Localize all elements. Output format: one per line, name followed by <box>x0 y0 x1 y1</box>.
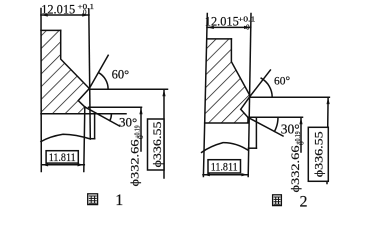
left edge fig1 <box>40 9 42 172</box>
30 deg arc fig1 <box>110 114 112 120</box>
30 deg line fig2 <box>248 117 283 136</box>
phi332.66 dimension line fig2 with up arrow <box>300 117 302 152</box>
horizontal line from vertex fig2 <box>250 96 329 98</box>
caption fig1 <box>88 192 124 209</box>
top face fig2 <box>207 38 231 40</box>
step bottom fig2 <box>248 147 256 149</box>
notch bottom vertical fig2 <box>247 117 249 123</box>
label 12.015 +0.1/0 fig2 <box>205 14 256 31</box>
label 12.015 +0.1/0 fig1 <box>41 3 94 17</box>
bottom face / 30deg reference fig1 <box>41 113 126 115</box>
11.811 dimension line fig2 <box>203 174 248 176</box>
svg-text:+0.1: +0.1 <box>238 15 256 23</box>
extension line right of 12.015 fig2 (tilted, through vertex) <box>248 14 251 177</box>
dimension line 12.015 fig2 <box>207 26 251 28</box>
top face fig1 <box>41 29 61 31</box>
horizontal line from vertex fig1 <box>89 88 167 90</box>
svg-text:60°: 60° <box>274 76 291 88</box>
30 deg arc fig2 <box>275 117 279 131</box>
wavy break line fig1 <box>41 134 91 141</box>
60 deg arc fig1 <box>99 73 108 89</box>
left edge fig2 (slightly tilted) <box>203 14 207 177</box>
phi336.55 dimension line fig1 with up arrow <box>163 89 165 178</box>
svg-text:ϕ332.66+0.190: ϕ332.66+0.190 <box>128 125 146 186</box>
svg-text:0: 0 <box>246 24 250 32</box>
hatching fig2 sectioned part <box>205 39 250 123</box>
svg-text:11.811: 11.811 <box>211 162 238 174</box>
60 deg line fig1 <box>89 55 108 88</box>
bottom face fig2 <box>205 122 247 124</box>
phi332.66 / 30deg reference horizontal fig2 <box>248 116 303 118</box>
60 deg line fig2 <box>250 70 270 96</box>
phi336.55 dimension line fig2 with up arrow <box>327 97 328 183</box>
extension line right of 11.811 fig1 <box>84 107 85 172</box>
svg-text:2: 2 <box>300 194 308 211</box>
hatching fig1 sectioned part <box>41 30 89 113</box>
11.811 box fig2 <box>208 160 241 173</box>
svg-text:60°: 60° <box>112 67 130 81</box>
part outline fig1 <box>61 30 90 107</box>
caption fig2 <box>273 194 308 211</box>
11.811 box fig1 <box>46 151 78 163</box>
step vertical fig2 <box>255 117 257 148</box>
svg-text:12.015: 12.015 <box>205 14 239 28</box>
dimension line 12.015 fig1 <box>41 14 89 16</box>
svg-text:ϕ332.66+0.190: ϕ332.66+0.190 <box>288 131 306 192</box>
svg-text:1: 1 <box>115 192 123 209</box>
phi336.55 box fig1 <box>148 119 165 170</box>
60 deg arc fig2 <box>261 78 272 97</box>
step bottom fig1 <box>90 138 94 140</box>
svg-text:0: 0 <box>83 9 87 17</box>
extension line right of 12.015 fig1 (to vertex, down to step) <box>89 9 91 139</box>
svg-text:12.015: 12.015 <box>41 3 75 17</box>
phi336.55 box fig2 <box>308 127 328 181</box>
30 deg line fig1 <box>85 107 120 126</box>
11.811 dimension line fig1 <box>41 164 84 166</box>
step vertical fig1 <box>94 114 96 139</box>
part outline fig2 <box>231 39 250 118</box>
phi332.66 dimension line fig1 with up arrow <box>140 107 142 151</box>
wavy break line fig2 <box>202 143 249 153</box>
svg-text:ϕ336.55: ϕ336.55 <box>150 122 164 168</box>
svg-text:ϕ336.55: ϕ336.55 <box>311 131 325 177</box>
phi332.66 reference horizontal fig1 <box>89 106 142 108</box>
svg-text:11.811: 11.811 <box>49 152 76 164</box>
